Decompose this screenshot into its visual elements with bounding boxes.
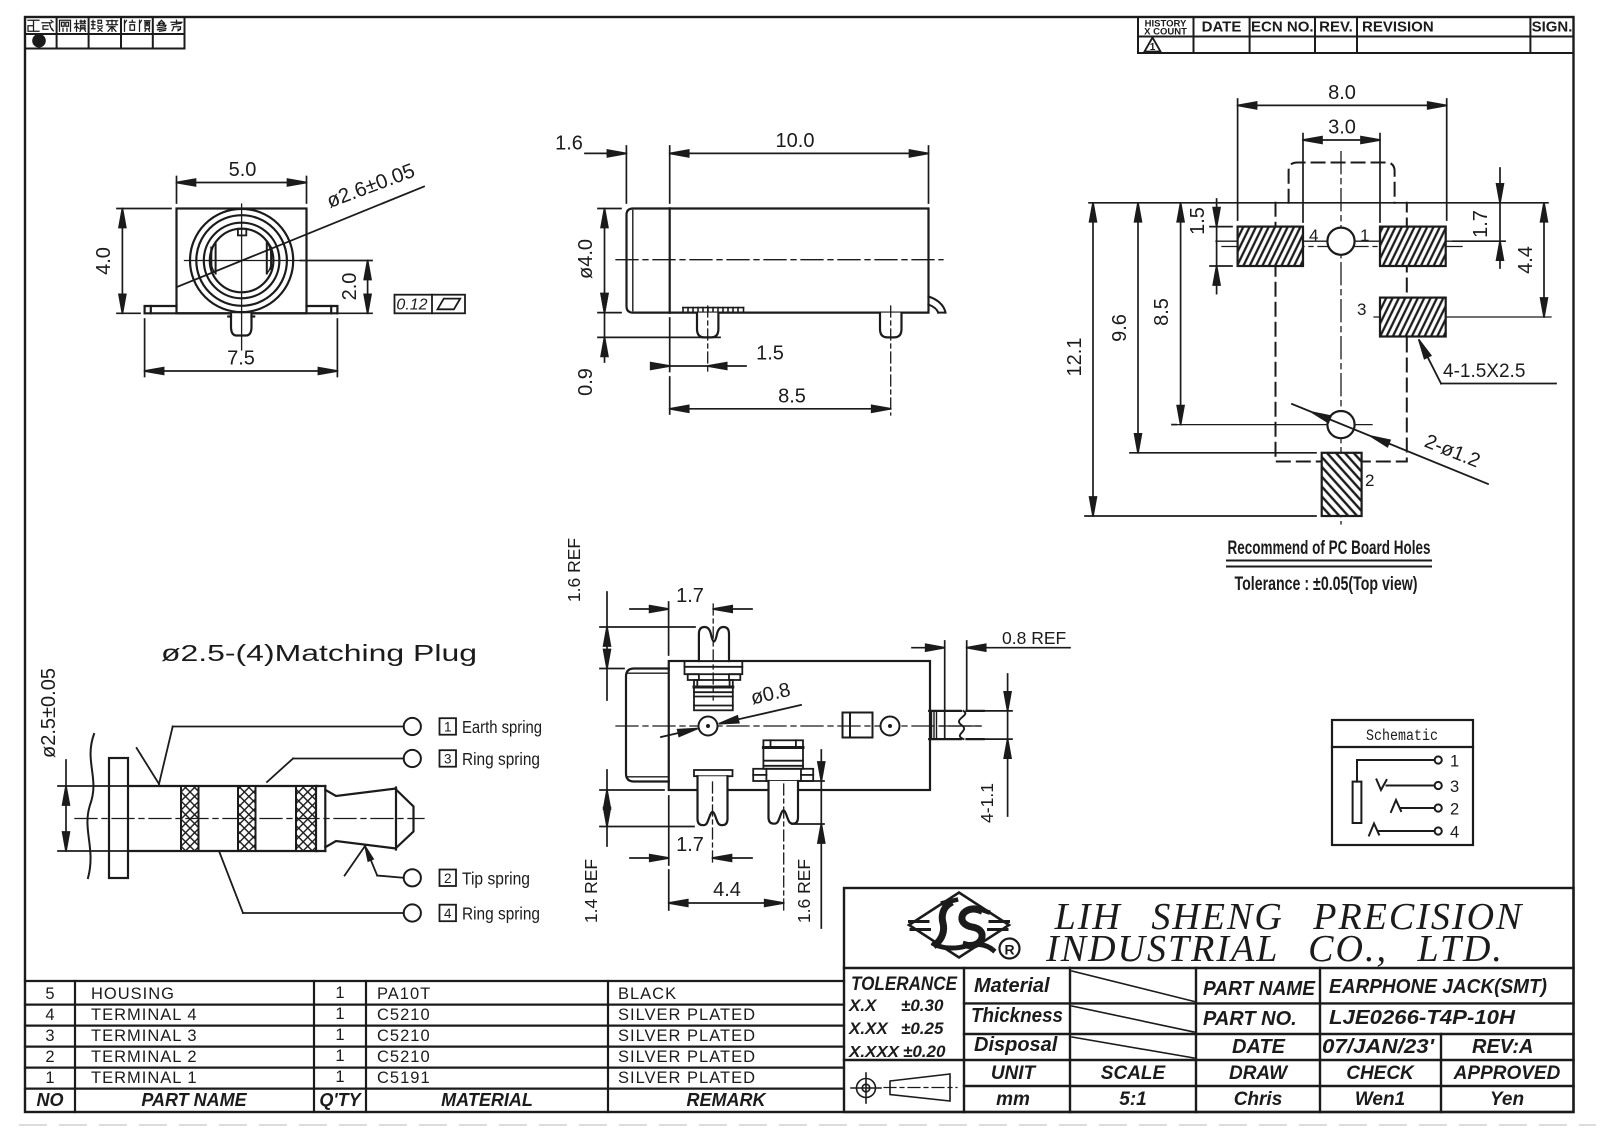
terminal 3 break squiggle: [959, 711, 965, 739]
schematic pin 2 with spring contact: [1391, 800, 1459, 819]
terminal 2 inner stack: [763, 740, 803, 769]
pin 3 terminal circle: [404, 750, 421, 767]
svg-text:1: 1: [335, 1026, 344, 1044]
schematic pin 3 with switch contact: [1377, 778, 1460, 796]
insulator band 2 (crosshatch): [238, 786, 256, 851]
svg-text:0.12: 0.12: [396, 297, 427, 314]
svg-text:5: 5: [45, 985, 54, 1003]
svg-text:4: 4: [1309, 226, 1318, 245]
svg-text:Chris: Chris: [1234, 1089, 1283, 1110]
bom header row: [37, 1090, 768, 1110]
svg-text:2: 2: [45, 1048, 54, 1066]
svg-text:PA10T: PA10T: [377, 985, 431, 1003]
svg-text:EARPHONE JACK(SMT): EARPHONE JACK(SMT): [1329, 976, 1547, 998]
leg 1 centerline: [707, 306, 709, 372]
svg-text:1.7: 1.7: [1470, 210, 1492, 238]
svg-text:3: 3: [45, 1027, 54, 1045]
svg-text:REV:A: REV:A: [1472, 1036, 1533, 1058]
side view body: [627, 209, 929, 313]
front bore left contact window: [211, 243, 215, 274]
svg-text:8.5: 8.5: [1151, 298, 1173, 326]
dimension 10.0 top: [670, 130, 929, 203]
svg-text:07/JAN/23': 07/JAN/23': [1322, 1036, 1435, 1058]
svg-text:SILVER PLATED: SILVER PLATED: [618, 1048, 756, 1066]
svg-text:2: 2: [444, 871, 452, 886]
svg-text:BLACK: BLACK: [618, 985, 677, 1003]
dimension 1.5 pad height: [1187, 199, 1232, 294]
pin 4 terminal circle: [404, 904, 421, 921]
svg-text:PART NAME: PART NAME: [141, 1090, 247, 1110]
footprint dashed outline: [1276, 163, 1407, 462]
front view bottom center tab (terminal 2): [228, 313, 254, 335]
leader dia 0.8: [661, 679, 801, 737]
switch contact tab: [843, 713, 873, 738]
svg-text:1: 1: [1450, 753, 1459, 771]
svg-text:±0.20: ±0.20: [903, 1042, 946, 1061]
side view right solder hook: [929, 297, 946, 313]
logo speed bars: [910, 922, 1009, 930]
dimension 1.6 REF (terminal 2): [792, 750, 825, 928]
front view bottom seat line: [145, 312, 338, 314]
svg-text:4.4: 4.4: [1515, 246, 1537, 274]
pin 2 terminal circle: [404, 869, 421, 886]
svg-text:C5210: C5210: [377, 1048, 431, 1066]
svg-text:X COUNT: X COUNT: [1144, 27, 1187, 38]
bottom view axis centerline: [616, 725, 985, 727]
dimension 8.5: [670, 377, 891, 414]
svg-text:1.6: 1.6: [555, 133, 583, 155]
svg-text:X.XX: X.XX: [848, 1019, 889, 1038]
svg-text:Q'TY: Q'TY: [319, 1090, 362, 1110]
svg-text:0.9: 0.9: [575, 368, 597, 396]
svg-text:1.5: 1.5: [756, 343, 784, 365]
dimension 3.0: [1303, 117, 1380, 223]
pad 1 (hatched): [1380, 227, 1446, 266]
callout 4-1.5X2.5: [1416, 338, 1556, 383]
dimension 4.4 right: [1515, 203, 1547, 317]
callout 2-dia1.2: [1292, 404, 1488, 484]
svg-text:C5191: C5191: [377, 1069, 431, 1087]
svg-text:2: 2: [1365, 471, 1374, 490]
terminal 3 centerline segment: [940, 725, 981, 727]
hole 2 circle: [1327, 411, 1354, 438]
svg-text:X.X: X.X: [848, 996, 878, 1015]
bottom view body: [669, 661, 930, 790]
insulator band 1 (crosshatch): [181, 786, 199, 851]
pad number labels: [1309, 226, 1374, 490]
svg-text:1: 1: [1150, 42, 1156, 53]
svg-text:1.6 REF: 1.6 REF: [564, 538, 584, 602]
pin 2 label box + text: [440, 868, 531, 888]
svg-text:1.5: 1.5: [1187, 207, 1209, 235]
leader line dia 2.6: [177, 187, 424, 288]
dimension 12.1: [1064, 203, 1316, 516]
pad 3 (hatched): [1380, 298, 1446, 337]
unit scale draw check approved row: [991, 1063, 1561, 1110]
bom row 2 TERMINAL 2: [45, 1047, 756, 1066]
dimension 2.0 right: [301, 261, 373, 314]
svg-text:1: 1: [444, 720, 452, 735]
terminal 2 collar: [753, 769, 813, 781]
dimension 1.4 REF left: [581, 770, 694, 923]
svg-text:Earth spring: Earth spring: [462, 717, 542, 737]
terminal 2 centerline: [783, 784, 785, 910]
pad 3 centerline: [1374, 316, 1551, 318]
svg-text:CHECK: CHECK: [1346, 1063, 1415, 1084]
dimension 4.4 (bottom view): [669, 870, 784, 910]
svg-text:1: 1: [335, 1068, 344, 1086]
svg-text:DATE: DATE: [1202, 19, 1242, 36]
bottom view front bump: [626, 669, 669, 782]
terminal 4 fork (bottom left): [694, 770, 733, 776]
pad 4 (hatched): [1238, 227, 1303, 266]
svg-text:9.6: 9.6: [1109, 314, 1131, 342]
svg-text:0.8 REF: 0.8 REF: [1002, 628, 1066, 648]
svg-text:2-ø1.2: 2-ø1.2: [1421, 430, 1483, 472]
svg-text:REVISION: REVISION: [1362, 19, 1434, 36]
company logo diamond: [909, 893, 1009, 958]
side view serrated boss: [683, 308, 744, 313]
dimension 0.8 REF: [912, 628, 1070, 739]
terminal 1 fork (top): [699, 627, 729, 661]
svg-text:4.4: 4.4: [713, 879, 741, 901]
svg-text:ø2.5±0.05: ø2.5±0.05: [38, 668, 60, 758]
svg-text:1: 1: [335, 1005, 344, 1023]
dimension 9.6: [1109, 203, 1316, 453]
svg-text:C5210: C5210: [377, 1006, 431, 1024]
svg-text:REV.: REV.: [1319, 19, 1353, 36]
leader tip spring (pin 2): [345, 845, 404, 878]
svg-text:ø0.8: ø0.8: [749, 679, 793, 709]
approval status table top-left: [25, 17, 185, 49]
svg-text:3: 3: [1357, 300, 1366, 319]
svg-text:Tip spring: Tip spring: [462, 868, 530, 888]
side view leg 2: [880, 313, 902, 338]
plug tip frustum: [325, 788, 413, 850]
svg-text:10.0: 10.0: [776, 130, 815, 152]
front view crosshair centerlines: [185, 204, 301, 350]
svg-text:1: 1: [1360, 226, 1369, 245]
dimension 5.0 top: [177, 159, 307, 203]
bom row 1 TERMINAL 1: [45, 1068, 756, 1087]
svg-text:R: R: [1004, 942, 1014, 958]
terminal 1 inner stack: [694, 680, 733, 710]
svg-text:TOLERANCE: TOLERANCE: [851, 974, 958, 995]
cable break wavy lines: [87, 734, 94, 878]
dimension 0.9 left: [575, 294, 720, 396]
rear hole circle: [881, 717, 900, 736]
material thickness disposal labels: [971, 975, 1063, 1056]
svg-text:ECN NO.: ECN NO.: [1251, 19, 1314, 36]
svg-text:C5210: C5210: [377, 1027, 431, 1045]
part name row: [1203, 976, 1547, 1058]
svg-text:Thickness: Thickness: [971, 1005, 1063, 1027]
svg-text:MATERIAL: MATERIAL: [441, 1090, 533, 1110]
svg-text:12.1: 12.1: [1064, 338, 1086, 377]
svg-text:INDUSTRIAL CO., LTD.: INDUSTRIAL CO., LTD.: [1045, 928, 1504, 970]
svg-text:LJE0266-T4P-10H: LJE0266-T4P-10H: [1329, 1007, 1516, 1029]
pad row reference line: [1216, 240, 1505, 242]
svg-text:SILVER PLATED: SILVER PLATED: [618, 1006, 756, 1024]
svg-text:4: 4: [45, 1006, 54, 1024]
svg-text:3: 3: [444, 752, 452, 767]
svg-text:2.0: 2.0: [339, 273, 361, 301]
bom row 5 HOUSING: [45, 984, 677, 1003]
svg-text:±0.30: ±0.30: [901, 996, 944, 1015]
svg-text:Schematic: Schematic: [1366, 727, 1438, 745]
schematic pin 4 with spring contact: [1369, 824, 1459, 842]
svg-text:HOUSING: HOUSING: [91, 985, 175, 1003]
logo gothic LS monogram: [934, 900, 993, 950]
first angle projection symbol: [851, 1073, 881, 1103]
logo registered mark: [1000, 939, 1020, 959]
dimension 1.7 top (bottom view): [630, 585, 752, 655]
svg-text:TERMINAL 4: TERMINAL 4: [91, 1006, 198, 1024]
svg-text:1.7: 1.7: [676, 834, 704, 856]
side view leg 1: [697, 313, 718, 338]
hole dia 0.8: [699, 717, 718, 736]
svg-text:8.0: 8.0: [1328, 82, 1356, 104]
svg-text:TERMINAL 1: TERMINAL 1: [91, 1069, 198, 1087]
pin 3 label box + text: [440, 749, 541, 769]
title block frame: [844, 888, 1574, 1112]
bom row 3 TERMINAL 3: [45, 1026, 756, 1045]
svg-text:4-1.1: 4-1.1: [977, 783, 997, 823]
svg-text:REMARK: REMARK: [687, 1090, 768, 1110]
blank cell diagonals: [1072, 971, 1194, 1058]
svg-text:5:1: 5:1: [1119, 1089, 1146, 1110]
revision history table top-right: [1138, 17, 1574, 53]
svg-text:4: 4: [444, 906, 452, 921]
plug neck ring: [316, 786, 325, 851]
leg 2 centerline: [890, 306, 892, 415]
dimension 4-1.1: [977, 674, 1012, 823]
approval table headers 正式 開模 設變 估價 參考 (drawn glyphs): [28, 20, 182, 31]
svg-text:X.XXX: X.XXX: [848, 1044, 900, 1061]
flatness feature control frame 0.12: [395, 295, 466, 314]
pin 1 terminal circle: [404, 718, 421, 735]
plug axis centerline: [75, 818, 424, 820]
front view concentric rings: [190, 209, 293, 312]
svg-text:TERMINAL 3: TERMINAL 3: [91, 1027, 198, 1045]
svg-text:2: 2: [1450, 801, 1459, 819]
tolerance cell: [848, 974, 958, 1061]
dimension 1.7 bottom (bottom view): [630, 796, 752, 865]
hole 2 centerline: [1176, 424, 1372, 426]
svg-text:Material: Material: [974, 975, 1050, 997]
svg-text:DATE: DATE: [1232, 1036, 1286, 1058]
bom row 4 TERMINAL 4: [45, 1005, 756, 1024]
svg-text:SCALE: SCALE: [1101, 1063, 1167, 1084]
schematic pin 1: [1435, 753, 1460, 771]
svg-text:DRAW: DRAW: [1229, 1063, 1289, 1084]
svg-text:UNIT: UNIT: [991, 1063, 1037, 1084]
svg-text:ø2.5-(4)Matching Plug: ø2.5-(4)Matching Plug: [161, 640, 477, 666]
svg-text:3.0: 3.0: [1328, 117, 1356, 139]
dimension dia 4.0 left: [575, 209, 621, 313]
pin 4 label box + text: [440, 904, 541, 924]
svg-text:PART NAME: PART NAME: [1203, 978, 1316, 1000]
svg-text:ø2.6±0.05: ø2.6±0.05: [324, 159, 418, 213]
svg-text:5.0: 5.0: [229, 159, 257, 181]
approval filled dot (正式): [32, 34, 46, 48]
pad row centerline: [1222, 246, 1462, 248]
front view left mount flange: [145, 306, 177, 313]
terminal 1 collar: [685, 661, 743, 680]
terminal 1 fork centerline: [712, 604, 714, 700]
schematic frame: [1332, 720, 1473, 845]
svg-text:Recommend of PC Board Holes: Recommend of PC Board Holes: [1228, 537, 1431, 559]
dimension dia 2.5 +-0.05: [38, 668, 133, 851]
history table headers: [1144, 19, 1572, 38]
svg-text:3: 3: [1450, 778, 1459, 796]
svg-text:1.7: 1.7: [676, 585, 704, 607]
projection cone symbol: [884, 1074, 957, 1101]
leader ring spring (pin 3): [267, 759, 404, 783]
dimension 8.5: [1151, 203, 1184, 425]
svg-text:NO: NO: [37, 1090, 64, 1110]
note: recommend of pc board holes: [1227, 537, 1431, 595]
svg-text:1: 1: [335, 984, 344, 1002]
svg-text:PART NO.: PART NO.: [1203, 1008, 1297, 1030]
dimension 1.6 REF left: [564, 538, 695, 700]
dimension 1.6 top: [555, 133, 626, 204]
schematic sleeve element: [1353, 760, 1435, 823]
svg-text:SILVER PLATED: SILVER PLATED: [618, 1027, 756, 1045]
svg-text:Disposal: Disposal: [974, 1034, 1058, 1056]
svg-text:Ring spring: Ring spring: [462, 749, 540, 769]
svg-text:SILVER PLATED: SILVER PLATED: [618, 1069, 756, 1087]
terminal 2 fork (bottom): [769, 781, 799, 824]
terminal 4 centerline: [712, 782, 714, 862]
svg-text:ø4.0: ø4.0: [575, 239, 597, 279]
plug shaft outline: [128, 786, 318, 851]
svg-text:1.6 REF: 1.6 REF: [794, 859, 814, 923]
vertical centerline: [1340, 152, 1342, 524]
terminal 3 knurl lines: [932, 711, 937, 739]
hole 1 circle: [1327, 228, 1354, 255]
svg-text:4-1.5X2.5: 4-1.5X2.5: [1443, 361, 1525, 382]
svg-text:APPROVED: APPROVED: [1453, 1063, 1561, 1084]
front view body square: [177, 209, 307, 314]
svg-text:1: 1: [335, 1047, 344, 1065]
pin 1 label box + text: [440, 717, 543, 737]
svg-text:4.0: 4.0: [93, 247, 115, 275]
dimension 8.0: [1238, 82, 1447, 220]
dimension 7.5 bottom: [145, 319, 338, 377]
svg-text:1.4 REF: 1.4 REF: [581, 859, 601, 923]
svg-text:mm: mm: [996, 1089, 1030, 1110]
svg-text:±0.25: ±0.25: [901, 1019, 944, 1038]
svg-text:TERMINAL 2: TERMINAL 2: [91, 1048, 198, 1066]
svg-text:7.5: 7.5: [227, 348, 255, 370]
dimension 1.7 right: [1453, 168, 1505, 268]
leader ring spring (pin 4): [219, 851, 404, 913]
leader earth spring (pin 1): [137, 727, 404, 785]
page edge scan mark bottom: [20, 1124, 1595, 1126]
terminal 3 rear bar: [929, 711, 984, 739]
bom table grid: [25, 981, 844, 1112]
front bore key slot top: [238, 229, 246, 236]
pad 2 (hatched): [1322, 453, 1362, 516]
svg-text:SIGN.: SIGN.: [1532, 19, 1573, 36]
plug collar: [109, 758, 128, 878]
svg-text:Wen1: Wen1: [1355, 1089, 1405, 1110]
insulator band 3 (crosshatch): [296, 786, 316, 851]
top reference line: [1089, 202, 1548, 204]
svg-text:Yen: Yen: [1490, 1089, 1524, 1110]
svg-text:8.5: 8.5: [778, 385, 806, 407]
svg-text:Tolerance : ±0.05(Top view): Tolerance : ±0.05(Top view): [1235, 573, 1418, 595]
svg-text:4: 4: [1450, 824, 1459, 842]
svg-text:1: 1: [45, 1069, 54, 1087]
front bore right contact window: [267, 243, 271, 274]
dimension 1.5: [651, 318, 784, 372]
front view right mount flange: [307, 306, 338, 313]
svg-text:Ring spring: Ring spring: [462, 904, 540, 924]
dimension 4.0 left: [93, 209, 171, 314]
revision triangle marker 1: [1145, 38, 1161, 54]
side view center axis line: [616, 259, 943, 261]
